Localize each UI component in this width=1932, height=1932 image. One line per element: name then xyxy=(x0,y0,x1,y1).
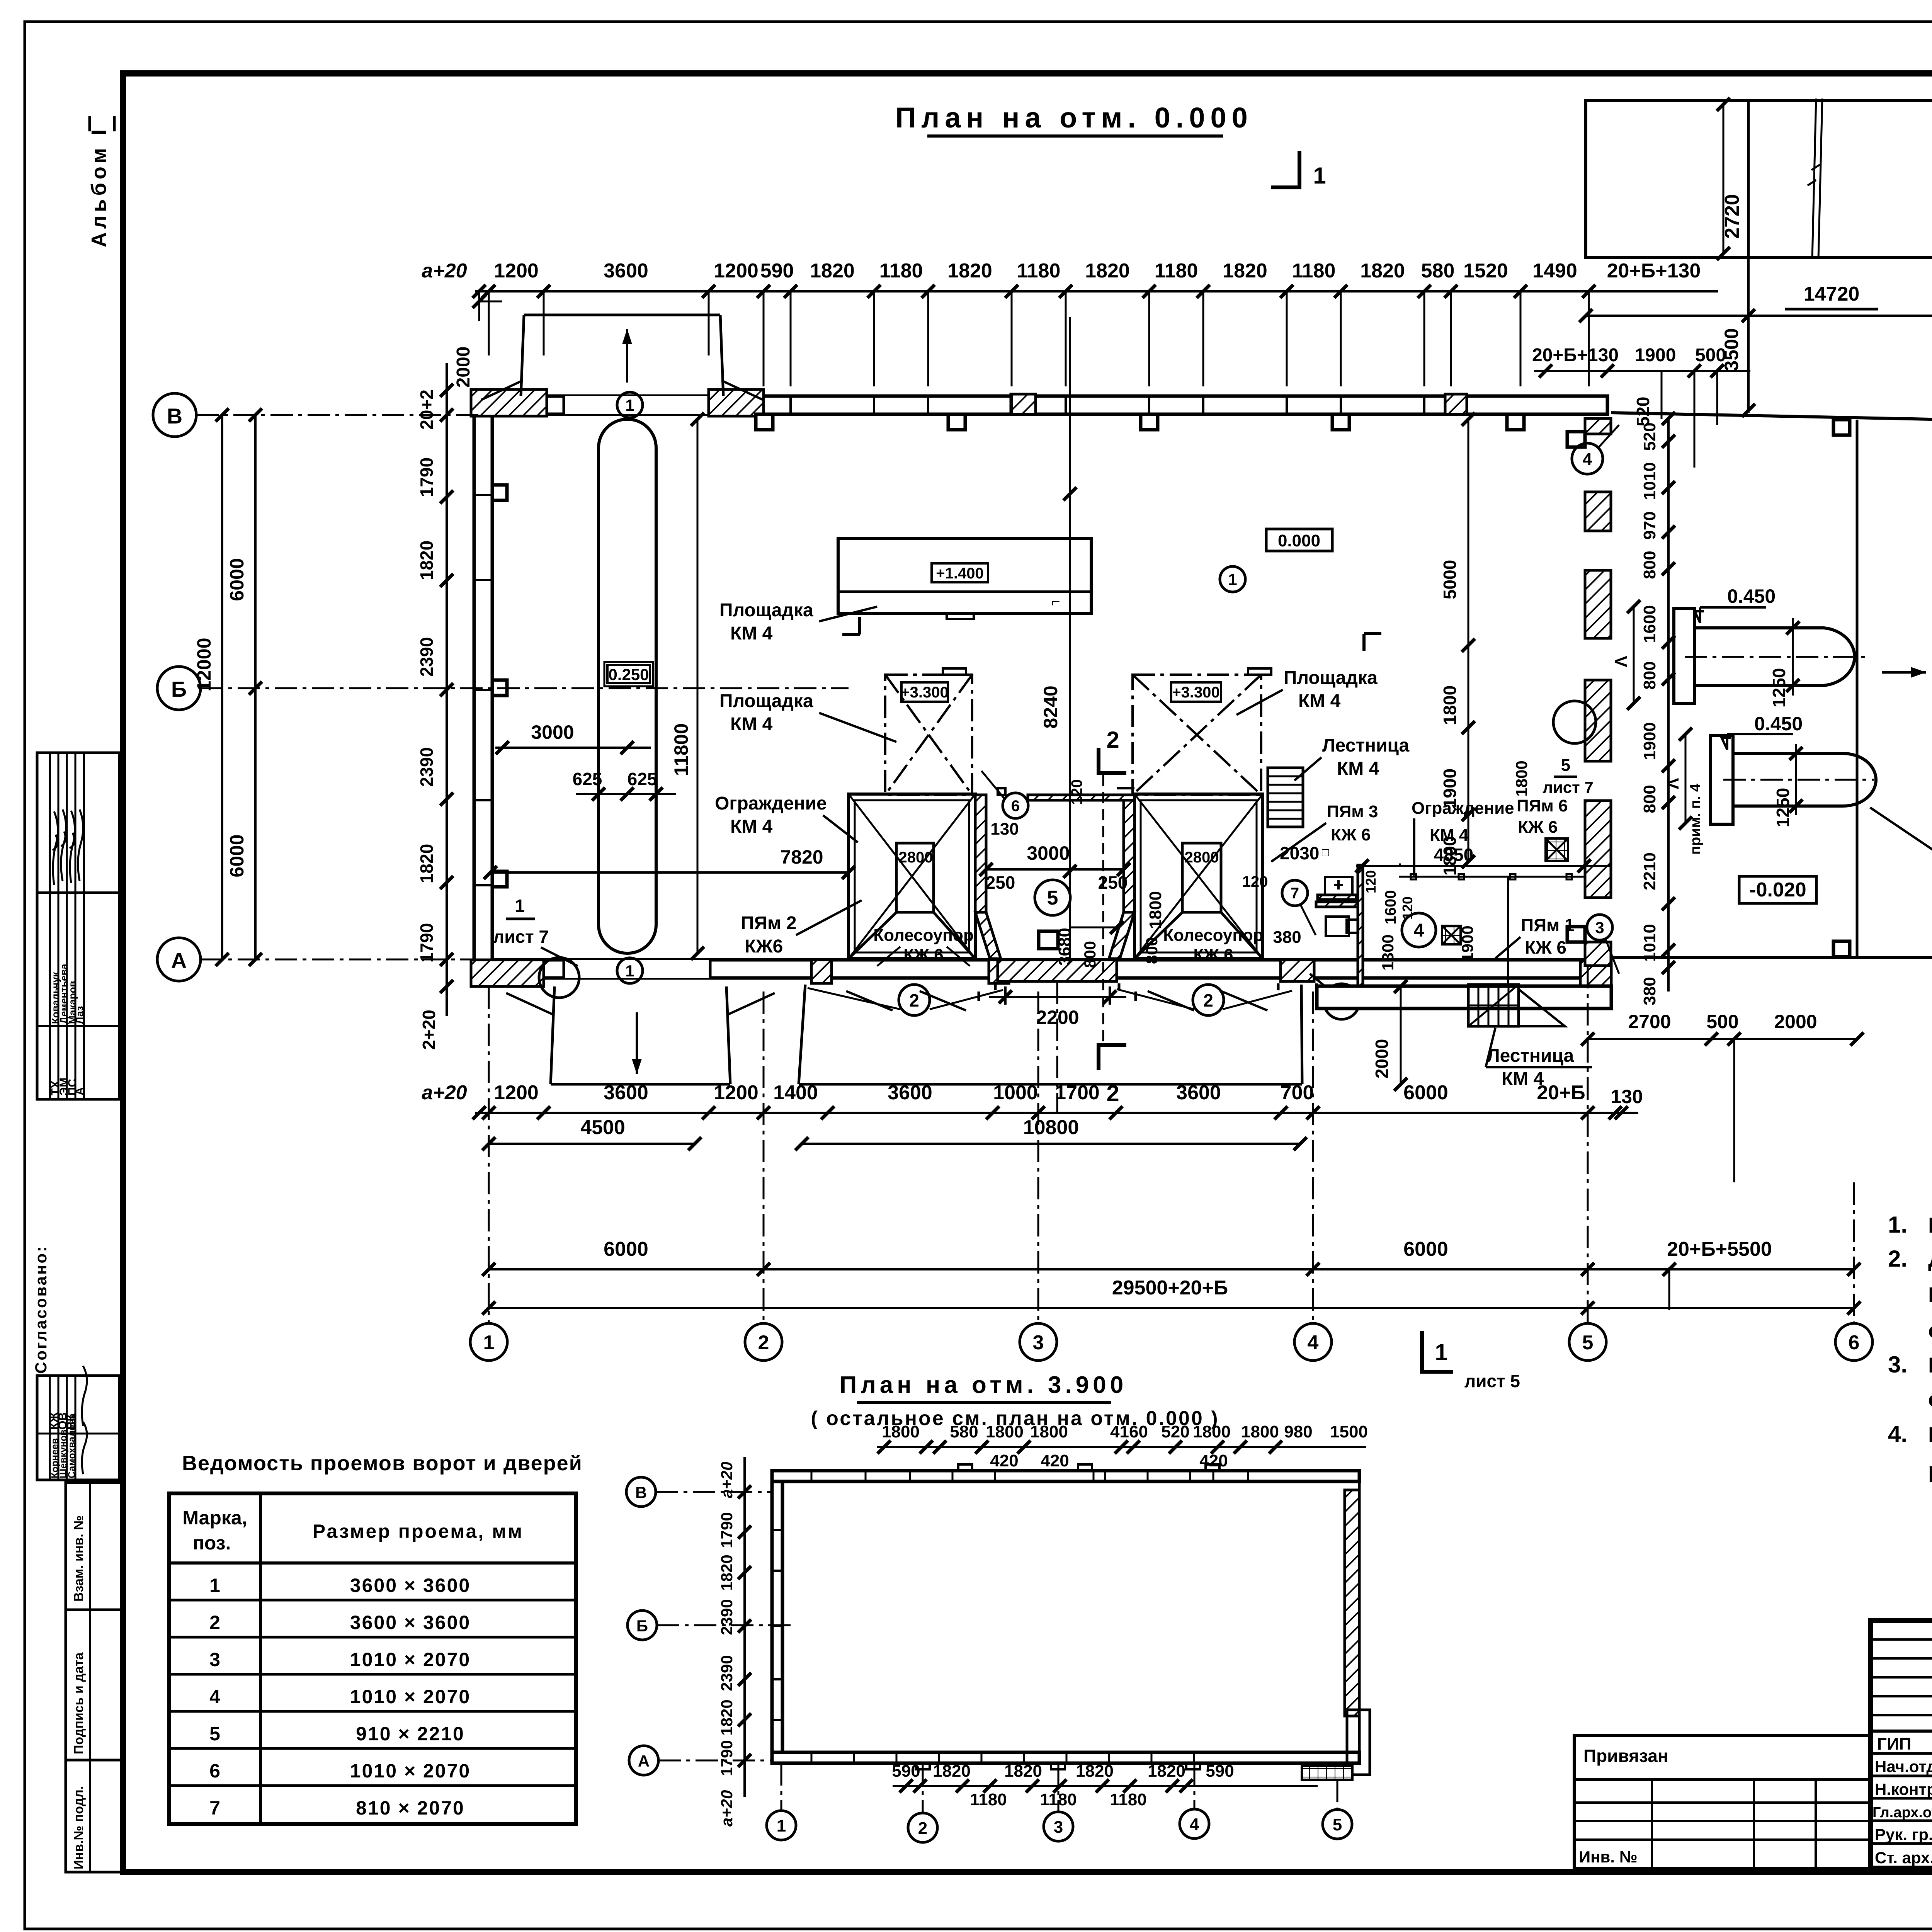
svg-text:3600 × 3600: 3600 × 3600 xyxy=(350,1612,471,1633)
svg-text:1820: 1820 xyxy=(1004,1762,1042,1781)
svg-text:2: 2 xyxy=(758,1332,769,1354)
svg-text:КМ 4: КМ 4 xyxy=(1337,759,1379,779)
svg-text:Ограждение: Ограждение xyxy=(715,793,827,814)
svg-text:оборудовать приборами для само: оборудовать приборами для самозакрывания… xyxy=(1928,1318,1932,1342)
svg-text:1010: 1010 xyxy=(1640,924,1659,962)
svg-text:1790: 1790 xyxy=(718,1740,736,1776)
svg-text:590: 590 xyxy=(760,260,794,282)
svg-text:14720: 14720 xyxy=(1804,283,1860,305)
svg-text:Размер проема, мм: Размер проема, мм xyxy=(313,1520,524,1542)
svg-text:7820: 7820 xyxy=(780,846,823,868)
svg-text:1800: 1800 xyxy=(1146,891,1165,929)
svg-text:Ст. арх.: Ст. арх. xyxy=(1875,1849,1932,1867)
svg-text:1180: 1180 xyxy=(1110,1790,1146,1809)
svg-text:1000: 1000 xyxy=(993,1082,1038,1104)
svg-text:ПЯм 3: ПЯм 3 xyxy=(1327,802,1378,821)
svg-text:поз.: поз. xyxy=(193,1532,231,1554)
svg-text:ПЯм 2: ПЯм 2 xyxy=(741,913,797,934)
svg-text:1.: 1. xyxy=(1888,1212,1907,1238)
svg-text:Н.контр.: Н.контр. xyxy=(1875,1780,1932,1798)
svg-text:□: □ xyxy=(1322,846,1329,859)
svg-text:1: 1 xyxy=(483,1332,495,1354)
svg-text:3: 3 xyxy=(1033,1332,1044,1354)
svg-text:1: 1 xyxy=(1435,1339,1447,1365)
svg-text:Взам. инв. №: Взам. инв. № xyxy=(71,1515,86,1602)
svg-text:1400: 1400 xyxy=(773,1082,818,1104)
svg-text:1800: 1800 xyxy=(1440,836,1460,876)
svg-text:+3.300: +3.300 xyxy=(1172,684,1219,701)
svg-text:1250: 1250 xyxy=(1769,668,1789,707)
svg-text:980: 980 xyxy=(1284,1422,1312,1441)
svg-text:Площадка: Площадка xyxy=(719,600,813,621)
svg-text:1520: 1520 xyxy=(1463,260,1508,282)
svg-text:ПЯм 6: ПЯм 6 xyxy=(1517,796,1568,815)
svg-text:1180: 1180 xyxy=(1292,260,1336,282)
svg-text:Лестница: Лестница xyxy=(1487,1046,1574,1066)
svg-text:800: 800 xyxy=(1081,941,1099,968)
svg-text:970: 970 xyxy=(1640,511,1659,539)
svg-text:1180: 1180 xyxy=(1017,260,1061,282)
svg-text:5: 5 xyxy=(1047,887,1058,909)
svg-text:Лестница: Лестница xyxy=(1322,735,1410,756)
svg-text:2800: 2800 xyxy=(1185,849,1219,866)
svg-text:А: А xyxy=(73,1087,86,1095)
svg-text:КЖ 6: КЖ 6 xyxy=(1331,825,1371,844)
svg-text:6000: 6000 xyxy=(1403,1238,1448,1260)
svg-text:ритам кормораздатчика.: ритам кормораздатчика. xyxy=(1928,1458,1932,1482)
svg-text:1200: 1200 xyxy=(714,260,759,282)
svg-text:2: 2 xyxy=(918,1819,927,1838)
svg-text:0.250: 0.250 xyxy=(608,665,649,684)
svg-text:1900: 1900 xyxy=(1440,769,1460,808)
svg-text:2030: 2030 xyxy=(1280,843,1319,863)
svg-text:КЖ 6: КЖ 6 xyxy=(1193,946,1233,964)
svg-text:КМ 4: КМ 4 xyxy=(730,816,773,837)
svg-text:1180: 1180 xyxy=(879,260,923,282)
svg-text:4: 4 xyxy=(1583,450,1592,469)
svg-text:1010 × 2070: 1010 × 2070 xyxy=(350,1760,471,1782)
svg-text:5: 5 xyxy=(209,1723,220,1745)
svg-text:1820: 1820 xyxy=(1223,260,1267,282)
svg-text:Ведомость проемов ворот и двер: Ведомость проемов ворот и дверей xyxy=(182,1452,583,1475)
svg-text:6000: 6000 xyxy=(1403,1082,1448,1104)
svg-text:1790: 1790 xyxy=(417,923,437,963)
svg-text:Б: Б xyxy=(636,1617,648,1635)
svg-text:1790: 1790 xyxy=(417,457,437,497)
svg-text:ГИП: ГИП xyxy=(1877,1735,1911,1753)
svg-text:3600: 3600 xyxy=(1176,1082,1221,1104)
svg-text:2200: 2200 xyxy=(1036,1007,1079,1028)
svg-text:-0.020: -0.020 xyxy=(1749,879,1806,901)
svg-text:2390: 2390 xyxy=(417,747,437,787)
svg-text:Рук. гр.: Рук. гр. xyxy=(1875,1825,1932,1844)
svg-text:1820: 1820 xyxy=(718,1699,736,1735)
svg-text:1800: 1800 xyxy=(1512,760,1531,796)
svg-text:2390: 2390 xyxy=(417,637,437,677)
svg-text:4: 4 xyxy=(1414,920,1424,941)
svg-text:Площадка: Площадка xyxy=(1284,668,1378,688)
svg-text:1: 1 xyxy=(625,396,634,414)
svg-text:а+20: а+20 xyxy=(422,260,467,282)
svg-text:5: 5 xyxy=(1333,1815,1342,1834)
svg-text:20+Б+5500: 20+Б+5500 xyxy=(1667,1238,1772,1260)
svg-text:800: 800 xyxy=(1640,551,1659,579)
svg-text:7: 7 xyxy=(209,1797,220,1819)
svg-text:+1.400: +1.400 xyxy=(936,565,983,582)
svg-text:Площадка: Площадка xyxy=(719,691,813,711)
svg-text:380: 380 xyxy=(1640,977,1659,1005)
svg-text:А: А xyxy=(171,948,187,973)
svg-text:а+20: а+20 xyxy=(718,1790,736,1827)
svg-text:420: 420 xyxy=(1199,1451,1228,1470)
svg-text:580: 580 xyxy=(950,1422,978,1441)
svg-text:Двери отмеченные на плане * об: Двери отмеченные на плане * обить кровел… xyxy=(1928,1247,1932,1271)
svg-text:Подпись и дата: Подпись и дата xyxy=(71,1652,86,1754)
svg-text:1800: 1800 xyxy=(1030,1422,1068,1441)
svg-text:625: 625 xyxy=(628,769,657,789)
svg-text:Настоящий лист см. совместно с: Настоящий лист см. совместно с листами 4… xyxy=(1928,1213,1932,1237)
svg-text:лист 5: лист 5 xyxy=(1464,1371,1520,1391)
svg-text:2: 2 xyxy=(209,1612,220,1633)
svg-text:6: 6 xyxy=(1011,798,1020,815)
svg-text:5: 5 xyxy=(1582,1332,1594,1354)
svg-text:5: 5 xyxy=(1561,756,1570,775)
svg-text:2000: 2000 xyxy=(1372,1039,1392,1078)
svg-text:1820: 1820 xyxy=(947,260,992,282)
svg-text:а+20: а+20 xyxy=(422,1082,467,1104)
svg-text:1200: 1200 xyxy=(714,1082,759,1104)
svg-text:1820: 1820 xyxy=(810,260,855,282)
svg-text:1800: 1800 xyxy=(882,1422,920,1441)
svg-text:2390: 2390 xyxy=(718,1599,736,1635)
svg-text:1800: 1800 xyxy=(1193,1422,1231,1441)
svg-text:0.450: 0.450 xyxy=(1727,585,1776,607)
svg-text:ПЯм 1: ПЯм 1 xyxy=(1521,915,1575,935)
svg-text:1820: 1820 xyxy=(417,541,437,580)
svg-text:а+20: а+20 xyxy=(718,1462,736,1498)
svg-text:1800: 1800 xyxy=(1440,685,1460,725)
svg-text:120: 120 xyxy=(1242,873,1268,890)
svg-text:+3.300: +3.300 xyxy=(901,684,948,701)
svg-text:420: 420 xyxy=(1041,1451,1069,1470)
svg-text:1600: 1600 xyxy=(1640,605,1659,643)
svg-text:Марка,: Марка, xyxy=(182,1507,247,1529)
svg-text:20+Б+130: 20+Б+130 xyxy=(1607,260,1701,282)
svg-text:Колесоупор: Колесоупор xyxy=(1163,926,1263,945)
svg-text:3: 3 xyxy=(1054,1818,1063,1837)
svg-text:6: 6 xyxy=(1849,1332,1860,1354)
svg-text:2: 2 xyxy=(909,990,919,1010)
svg-text:2000: 2000 xyxy=(453,347,474,388)
svg-text:3: 3 xyxy=(209,1649,220,1670)
svg-text:1800: 1800 xyxy=(1241,1422,1279,1441)
svg-text:0.000: 0.000 xyxy=(1278,531,1320,550)
svg-text:1200: 1200 xyxy=(494,1082,539,1104)
svg-text:520: 520 xyxy=(1640,422,1659,451)
svg-text:800: 800 xyxy=(1640,785,1659,813)
svg-text:1800: 1800 xyxy=(986,1422,1024,1441)
svg-text:590: 590 xyxy=(892,1762,920,1781)
svg-text:500: 500 xyxy=(1695,345,1726,366)
svg-text:1: 1 xyxy=(1313,163,1326,189)
svg-text:3000: 3000 xyxy=(531,721,574,743)
svg-text:29500+20+Б: 29500+20+Б xyxy=(1112,1277,1228,1299)
svg-text:В: В xyxy=(635,1483,647,1502)
svg-text:1300: 1300 xyxy=(1379,934,1397,970)
svg-text:2: 2 xyxy=(1203,990,1213,1010)
svg-text:2700: 2700 xyxy=(1628,1011,1671,1032)
svg-text:Альбом I: Альбом I xyxy=(87,126,111,247)
svg-text:20+Б: 20+Б xyxy=(1537,1082,1585,1104)
svg-text:КЖ6: КЖ6 xyxy=(745,936,783,957)
svg-text:3: 3 xyxy=(1595,918,1604,937)
svg-text:1010 × 2070: 1010 × 2070 xyxy=(350,1649,471,1670)
svg-text:120: 120 xyxy=(1363,870,1379,893)
svg-text:7: 7 xyxy=(1291,885,1299,902)
svg-text:590: 590 xyxy=(1206,1762,1234,1781)
svg-text:4: 4 xyxy=(1190,1815,1199,1834)
svg-text:1: 1 xyxy=(625,962,634,980)
svg-text:⌐: ⌐ xyxy=(1051,593,1060,610)
svg-text:Гл.арх.отд: Гл.арх.отд xyxy=(1872,1804,1932,1821)
svg-text:2000: 2000 xyxy=(1774,1011,1817,1032)
svg-text:3600: 3600 xyxy=(604,260,648,282)
svg-text:КЖ 6: КЖ 6 xyxy=(1518,818,1558,837)
svg-text:3600: 3600 xyxy=(604,1082,648,1104)
svg-text:130: 130 xyxy=(1611,1086,1643,1107)
svg-text:6000: 6000 xyxy=(226,834,248,877)
svg-text:Инв.№ подл.: Инв.№ подл. xyxy=(71,1786,86,1869)
svg-text:Ограждение: Ограждение xyxy=(1412,799,1514,818)
svg-text:смотреть на листах марки КЖ.: смотреть на листах марки КЖ. xyxy=(1928,1387,1932,1411)
svg-text:2720: 2720 xyxy=(1721,194,1743,239)
svg-text:1010 × 2070: 1010 × 2070 xyxy=(350,1686,471,1708)
svg-text:1180: 1180 xyxy=(1155,260,1198,282)
svg-text:КМ 4: КМ 4 xyxy=(1298,691,1341,711)
svg-text:3000: 3000 xyxy=(1027,842,1070,864)
svg-text:5000: 5000 xyxy=(1440,560,1460,599)
svg-text:580: 580 xyxy=(1421,260,1455,282)
svg-text:1820: 1820 xyxy=(1076,1762,1114,1781)
svg-text:2210: 2210 xyxy=(1640,852,1659,890)
svg-text:Колесоупор: Колесоупор xyxy=(873,926,973,945)
svg-text:Λ: Λ xyxy=(1612,656,1631,667)
svg-text:План на отм. 0.000: План на отм. 0.000 xyxy=(895,102,1253,134)
svg-text:1: 1 xyxy=(209,1575,220,1596)
svg-text:1490: 1490 xyxy=(1532,260,1577,282)
svg-text:План на отм. 3.900: План на отм. 3.900 xyxy=(840,1372,1127,1398)
svg-text:800: 800 xyxy=(1640,661,1659,689)
svg-text:1: 1 xyxy=(1228,570,1237,588)
svg-text:20+Б+130: 20+Б+130 xyxy=(1532,345,1619,366)
svg-text:380: 380 xyxy=(1273,928,1301,947)
svg-text:800: 800 xyxy=(1143,937,1161,964)
svg-text:КЖ 6: КЖ 6 xyxy=(1525,937,1566,957)
svg-text:Лаз: Лаз xyxy=(74,1006,85,1024)
svg-text:1820: 1820 xyxy=(718,1554,736,1590)
svg-text:6: 6 xyxy=(209,1760,220,1782)
svg-text:520: 520 xyxy=(1633,397,1653,427)
svg-text:Согласовано:: Согласовано: xyxy=(32,1245,50,1374)
svg-text:910 × 2210: 910 × 2210 xyxy=(356,1723,465,1745)
svg-text:6000: 6000 xyxy=(604,1238,648,1260)
svg-text:3600: 3600 xyxy=(888,1082,932,1104)
svg-text:420: 420 xyxy=(990,1451,1018,1470)
svg-text:10800: 10800 xyxy=(1023,1116,1079,1139)
svg-text:КМ 4: КМ 4 xyxy=(730,623,773,644)
svg-text:1790: 1790 xyxy=(718,1512,736,1548)
svg-text:520: 520 xyxy=(1161,1422,1189,1441)
svg-text:Λ: Λ xyxy=(1663,778,1682,789)
svg-text:625: 625 xyxy=(573,769,602,789)
svg-text:1700: 1700 xyxy=(1055,1082,1100,1104)
svg-text:1600: 1600 xyxy=(1382,890,1399,925)
svg-text:1200: 1200 xyxy=(494,260,539,282)
svg-text:Размер Л при устройстве колесо: Размер Л при устройстве колесоотбойника … xyxy=(1928,1422,1932,1447)
svg-text:1820: 1820 xyxy=(1148,1762,1185,1781)
svg-text:1820: 1820 xyxy=(933,1762,971,1781)
svg-text:1900: 1900 xyxy=(1635,345,1676,366)
svg-text:6000: 6000 xyxy=(226,558,248,601)
svg-text:2+20: 2+20 xyxy=(419,1010,439,1050)
svg-text:2: 2 xyxy=(1106,727,1119,753)
svg-text:1820: 1820 xyxy=(417,844,437,883)
svg-text:500: 500 xyxy=(1706,1011,1738,1032)
svg-text:130: 130 xyxy=(990,820,1019,838)
svg-text:250: 250 xyxy=(986,872,1015,893)
svg-text:11800: 11800 xyxy=(670,723,692,776)
svg-text:В: В xyxy=(167,404,182,428)
svg-text:лист 7: лист 7 xyxy=(1543,778,1593,796)
svg-text:2: 2 xyxy=(1106,1080,1119,1106)
svg-text:4500: 4500 xyxy=(580,1116,625,1139)
svg-text:2.: 2. xyxy=(1888,1246,1907,1272)
svg-text:КЖ 6: КЖ 6 xyxy=(903,946,943,964)
svg-text:20+2: 20+2 xyxy=(417,389,437,430)
svg-text:Б: Б xyxy=(171,677,187,701)
svg-text:8240: 8240 xyxy=(1040,685,1061,728)
svg-text:1: 1 xyxy=(777,1816,786,1835)
svg-text:1820: 1820 xyxy=(1360,260,1405,282)
svg-text:4: 4 xyxy=(1308,1332,1319,1354)
svg-text:2800: 2800 xyxy=(899,849,933,866)
svg-text:ГОСТ 14918-80 по асбестокартон: ГОСТ 14918-80 по асбестокартону ГОСТ-285… xyxy=(1928,1282,1932,1307)
svg-text:4.: 4. xyxy=(1888,1421,1907,1447)
svg-text:700: 700 xyxy=(1281,1082,1314,1104)
svg-text:Привязан: Привязан xyxy=(1583,1746,1668,1766)
svg-text:А: А xyxy=(638,1752,650,1770)
svg-text:КМ 4: КМ 4 xyxy=(730,714,773,735)
svg-text:1010: 1010 xyxy=(1640,462,1659,500)
svg-text:Инв. №: Инв. № xyxy=(1579,1848,1638,1866)
svg-text:1500: 1500 xyxy=(1330,1422,1368,1441)
svg-text:1820: 1820 xyxy=(1085,260,1130,282)
svg-text:1900: 1900 xyxy=(1640,722,1659,760)
svg-text:1250: 1250 xyxy=(1773,788,1793,827)
svg-text:ВК: ВК xyxy=(65,1414,78,1430)
svg-text:Конструкцию фундаментов под об: Конструкцию фундаментов под оборудование… xyxy=(1928,1353,1932,1377)
svg-text:0.450: 0.450 xyxy=(1754,713,1803,735)
svg-text:2390: 2390 xyxy=(718,1655,736,1691)
svg-text:810 × 2070: 810 × 2070 xyxy=(356,1797,465,1819)
svg-text:3.: 3. xyxy=(1888,1352,1907,1378)
svg-text:1: 1 xyxy=(515,896,525,916)
svg-text:4: 4 xyxy=(209,1686,220,1708)
svg-text:лист 7: лист 7 xyxy=(493,927,549,947)
svg-text:3600 × 3600: 3600 × 3600 xyxy=(350,1575,471,1596)
svg-text:4160: 4160 xyxy=(1110,1422,1148,1441)
svg-text:1180: 1180 xyxy=(970,1790,1007,1809)
svg-text:12000: 12000 xyxy=(193,638,215,691)
svg-text:Нач.отд.: Нач.отд. xyxy=(1875,1757,1932,1776)
